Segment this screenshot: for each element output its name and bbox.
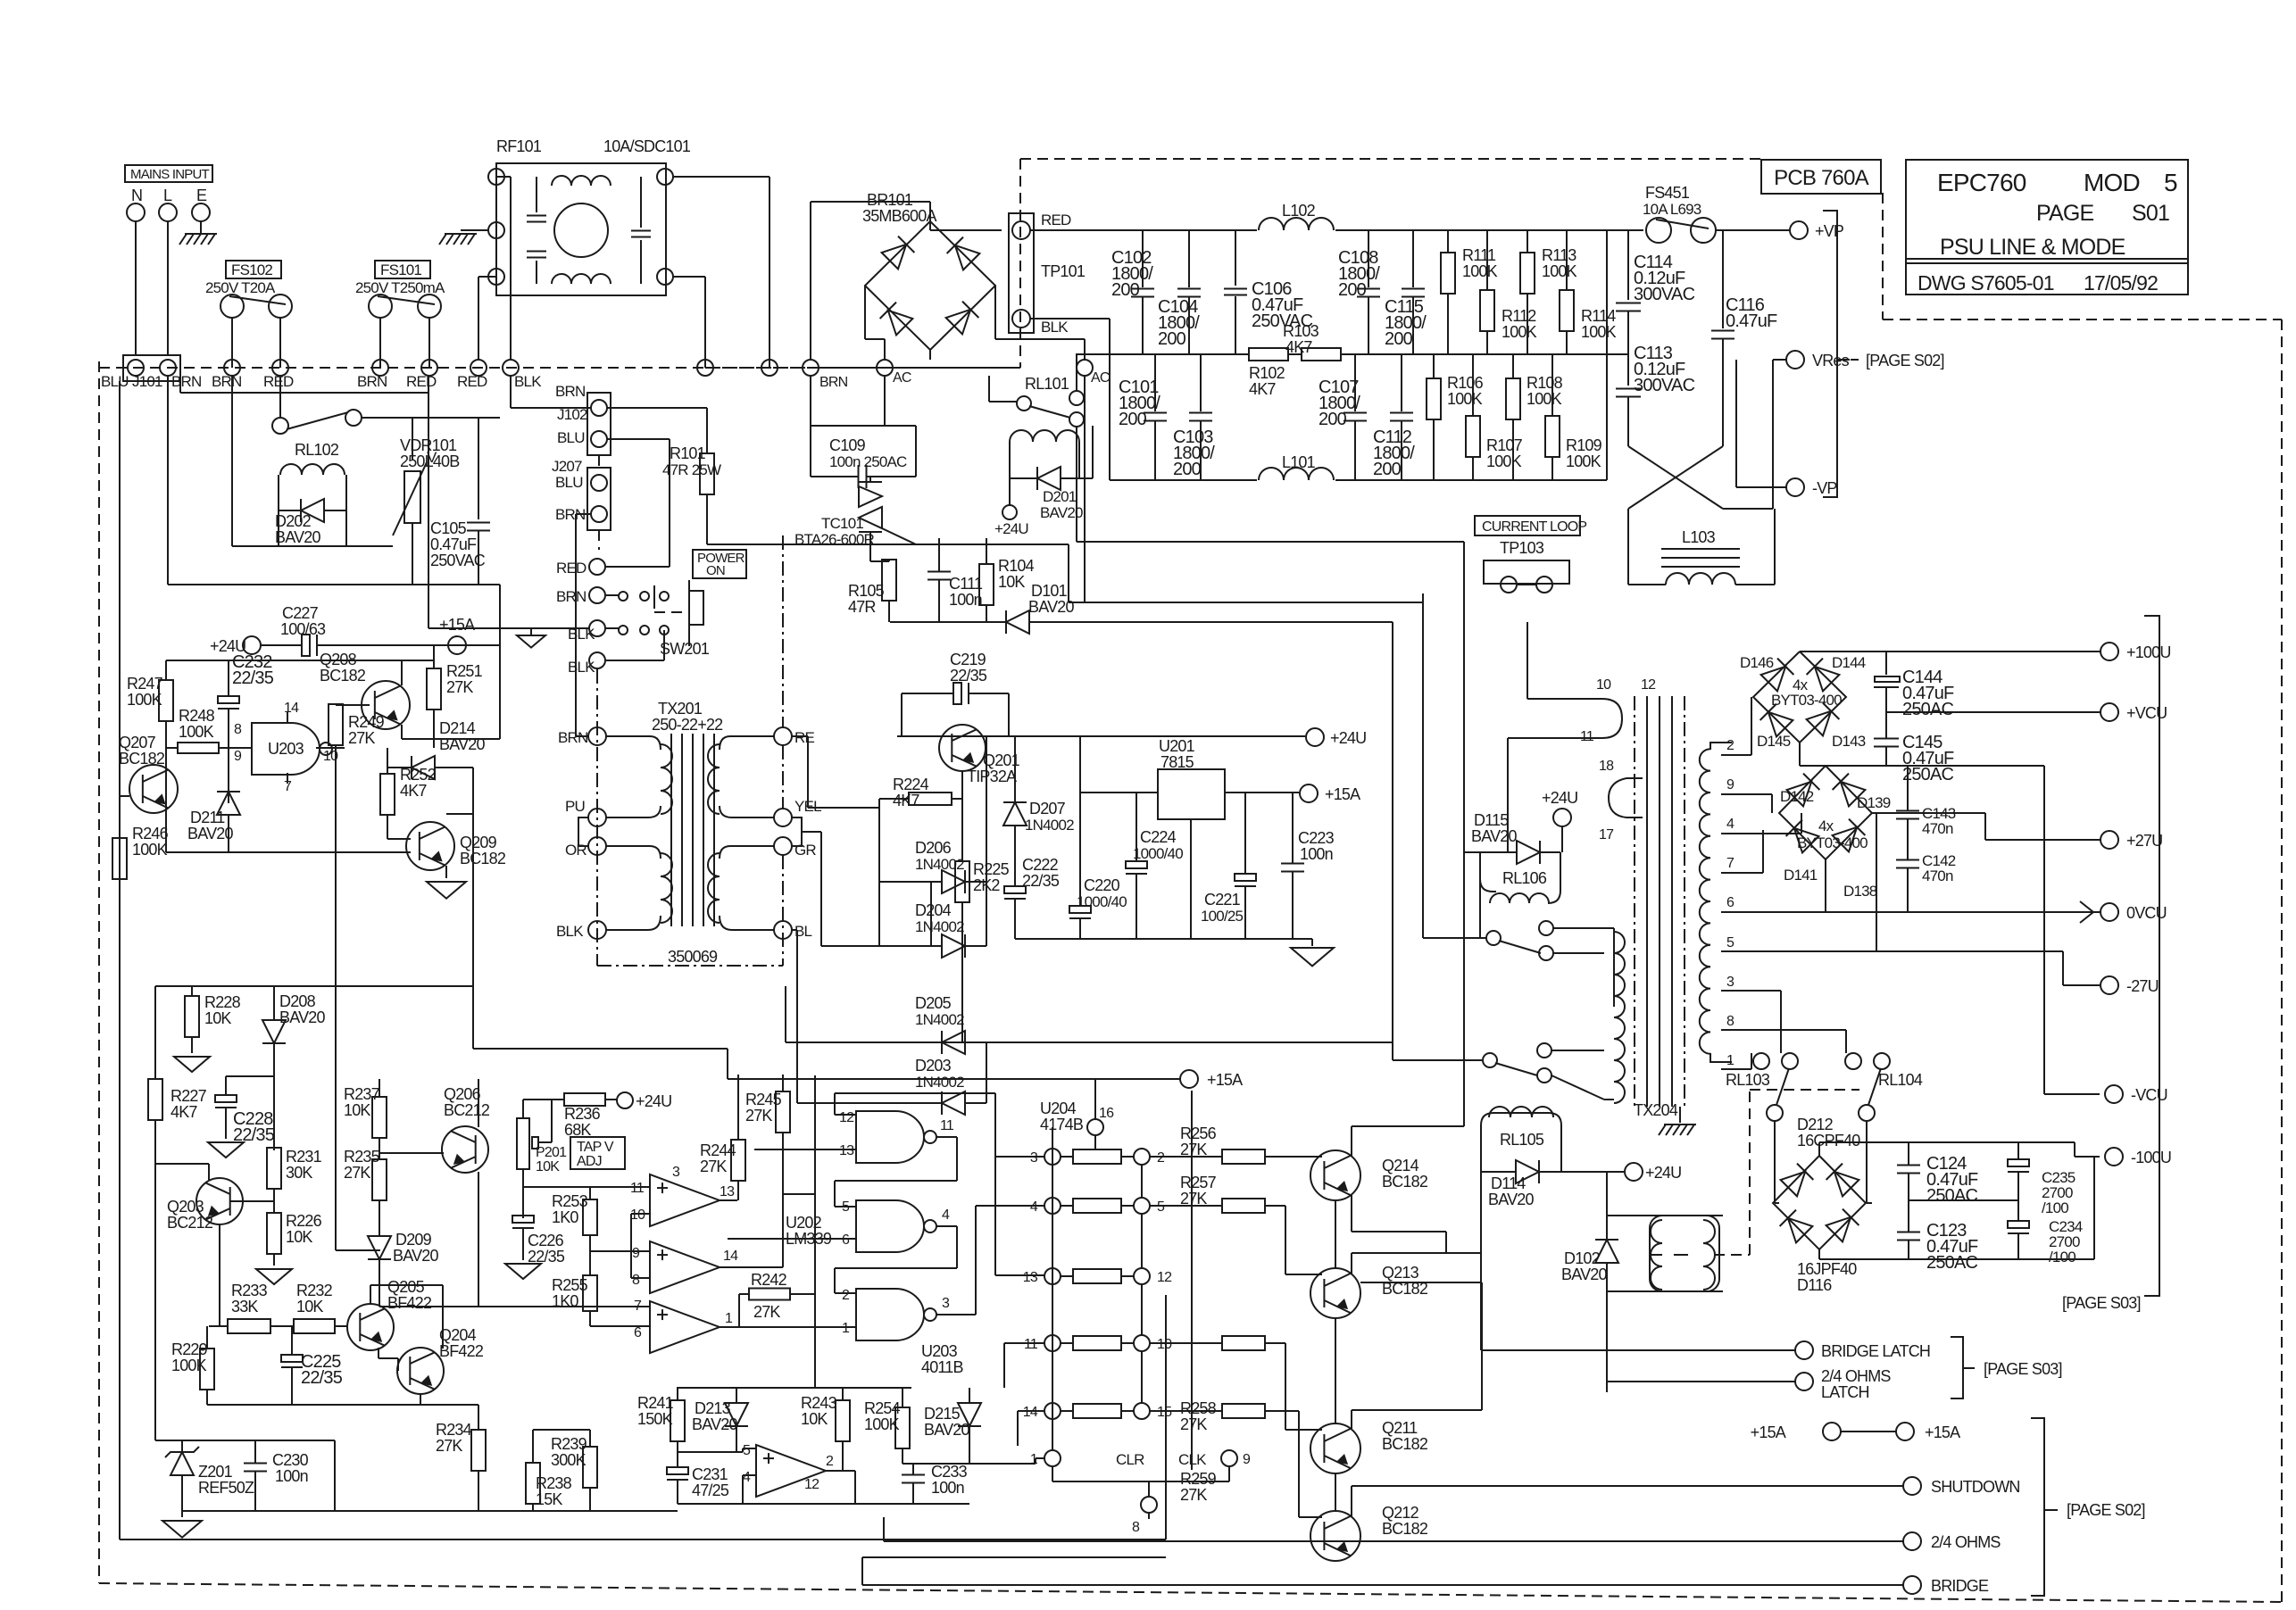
svg-text:R225: R225 — [973, 860, 1010, 878]
svg-text:9: 9 — [234, 749, 242, 764]
wire -100U — [1819, 1142, 2100, 1157]
svg-text:18: 18 — [1599, 759, 1614, 774]
terminal 0VCU — [2101, 903, 2167, 922]
wire nand2 to u204 — [976, 1206, 1044, 1315]
wire relay16 contact — [1486, 921, 1604, 960]
svg-text:R106: R106 — [1447, 374, 1484, 392]
svg-text:1N4002: 1N4002 — [915, 1011, 964, 1028]
resistor R241 — [637, 1388, 685, 1452]
terminal BRIDGE — [862, 1576, 1989, 1595]
wire bridge1 bottom — [1800, 743, 2044, 1035]
svg-text:1: 1 — [1726, 1053, 1734, 1068]
page border bottom — [99, 1583, 2282, 1602]
svg-text:GR: GR — [794, 842, 816, 859]
terminal +15A mid — [1300, 784, 1360, 803]
svg-text:BRN: BRN — [819, 375, 848, 390]
wire gr bl — [791, 930, 986, 1103]
svg-text:100n: 100n — [949, 591, 982, 609]
svg-text:200: 200 — [1119, 410, 1147, 429]
svg-text:14: 14 — [1023, 1405, 1038, 1420]
svg-text:27K: 27K — [1180, 1486, 1207, 1504]
svg-text:200: 200 — [1319, 410, 1347, 429]
diode D205 — [915, 994, 986, 1054]
svg-text:D141: D141 — [1784, 867, 1818, 884]
connector J102 — [555, 383, 611, 455]
wire d214 right — [446, 768, 473, 1049]
svg-text:D115: D115 — [1474, 811, 1509, 829]
svg-text:R246: R246 — [132, 825, 169, 842]
svg-text:5: 5 — [743, 1443, 751, 1458]
TX204 tap 4 — [1726, 817, 1734, 832]
resistor R237 — [344, 1079, 387, 1153]
svg-text:RL106: RL106 — [1502, 869, 1547, 887]
svg-text:27K: 27K — [436, 1437, 462, 1455]
svg-text:12: 12 — [839, 1110, 854, 1125]
RF101 bottom coil — [552, 274, 611, 284]
wire long v1306 — [1165, 1295, 1167, 1539]
svg-text:N: N — [131, 187, 142, 204]
svg-text:TC101: TC101 — [821, 515, 863, 532]
svg-text:100K: 100K — [1566, 452, 1601, 470]
resistor R253 — [552, 1187, 597, 1251]
svg-text:+24U: +24U — [994, 520, 1028, 537]
wire nand feedbacks — [835, 1093, 995, 1293]
relay RL106 — [1480, 852, 1560, 903]
svg-text:[PAGE S02]: [PAGE S02] — [1866, 352, 1944, 369]
svg-text:250AC: 250AC — [1902, 765, 1954, 784]
capacitor C107 — [1319, 354, 1367, 480]
svg-text:RED: RED — [1041, 212, 1071, 228]
svg-text:BLK: BLK — [568, 659, 595, 676]
svg-text:C111: C111 — [949, 575, 983, 593]
svg-text:BF422: BF422 — [387, 1294, 432, 1312]
title text 17/05/92 — [2084, 271, 2158, 295]
svg-text:S01: S01 — [2132, 201, 2169, 226]
svg-text:100K: 100K — [1527, 390, 1562, 408]
TX201 dash bottom — [597, 535, 783, 966]
wire clr link — [913, 1458, 1044, 1464]
svg-text:15: 15 — [1157, 1405, 1172, 1420]
svg-text:U204: U204 — [1040, 1100, 1077, 1117]
terminal SHUTDOWN — [1903, 1477, 2020, 1496]
pot P201 — [517, 1100, 567, 1218]
resistor R225 — [955, 860, 1010, 1042]
svg-text:BAV20: BAV20 — [275, 528, 320, 546]
svg-text:2: 2 — [1726, 738, 1734, 753]
svg-text:Q214: Q214 — [1382, 1157, 1419, 1174]
svg-text:47R 25W: 47R 25W — [662, 461, 721, 478]
svg-text:U203: U203 — [268, 740, 304, 758]
resistor R239 — [551, 1430, 597, 1511]
svg-text:R258: R258 — [1180, 1399, 1217, 1417]
svg-text:100K: 100K — [1486, 452, 1522, 470]
inductor L102 — [1259, 202, 1334, 230]
TX201 pu-or bracket — [578, 817, 589, 846]
RF101 inner wires — [537, 177, 641, 284]
wire FS102 left down — [231, 318, 233, 368]
svg-text:4K7: 4K7 — [893, 792, 919, 809]
svg-text:27K: 27K — [753, 1303, 780, 1321]
svg-text:D102: D102 — [1564, 1249, 1601, 1267]
wire tp101 blk — [1030, 319, 1110, 354]
wire tap8 — [1721, 1030, 1846, 1053]
wire j102 brn — [607, 408, 707, 452]
svg-text:R102: R102 — [1249, 364, 1285, 382]
svg-text:R257: R257 — [1180, 1174, 1217, 1191]
svg-text:470n: 470n — [1922, 867, 1953, 884]
relay RL102 coil — [279, 441, 346, 546]
svg-text:TP101: TP101 — [1041, 262, 1086, 280]
label PAGE S02 vres — [1851, 352, 1944, 369]
wire c227 right down — [499, 585, 501, 645]
svg-text:/100: /100 — [2042, 1199, 2068, 1216]
svg-text:10A L693: 10A L693 — [1643, 201, 1701, 218]
resistor R102 — [1249, 348, 1288, 398]
svg-text:10: 10 — [1596, 677, 1611, 693]
bridge BYT03-400 a — [1740, 651, 1866, 750]
svg-text:27K: 27K — [1180, 1415, 1207, 1433]
fuse FS101 — [369, 295, 441, 318]
transistor Q212 — [1310, 1504, 1428, 1561]
resistor R105 — [848, 560, 896, 622]
wire d115 rail — [1464, 851, 1480, 853]
svg-text:7: 7 — [1726, 856, 1734, 871]
svg-text:250VAC: 250VAC — [430, 552, 486, 569]
connector J101 — [101, 355, 202, 390]
svg-text:RED: RED — [457, 373, 487, 390]
svg-text:250V T20A: 250V T20A — [205, 279, 276, 296]
wire FS101 left down — [379, 318, 381, 368]
svg-text:30K: 30K — [286, 1164, 312, 1182]
svg-text:CLK: CLK — [1178, 1451, 1207, 1468]
wire re rail — [791, 736, 942, 882]
wire RF101 right bottom — [673, 277, 705, 368]
capacitor C112 — [1373, 354, 1415, 480]
svg-text:FS102: FS102 — [231, 261, 272, 278]
wire +24U rail — [897, 735, 1305, 737]
wire L down — [167, 221, 169, 355]
svg-text:10K: 10K — [296, 1298, 323, 1315]
svg-text:R232: R232 — [296, 1282, 333, 1299]
svg-text:10K: 10K — [998, 573, 1025, 591]
svg-text:D201: D201 — [1043, 488, 1077, 505]
svg-text:C233: C233 — [931, 1463, 968, 1481]
resistor R104 — [979, 538, 1035, 622]
svg-text:100n: 100n — [275, 1467, 308, 1485]
svg-text:L103: L103 — [1682, 528, 1716, 546]
svg-text:ON: ON — [706, 563, 725, 578]
svg-text:9: 9 — [1243, 1452, 1251, 1467]
svg-text:100n: 100n — [931, 1479, 964, 1497]
svg-text:3: 3 — [672, 1165, 680, 1180]
resistor R238 — [526, 1455, 572, 1511]
title text DWG S7605-01 — [1917, 271, 2054, 295]
svg-text:8: 8 — [1726, 1014, 1734, 1029]
terminal +15A left — [434, 616, 475, 654]
svg-text:Q207: Q207 — [119, 734, 156, 751]
svg-text:-VP: -VP — [1812, 479, 1837, 497]
transistor Q214 — [1310, 1150, 1428, 1200]
svg-text:R236: R236 — [564, 1105, 601, 1123]
svg-text:35MB600A: 35MB600A — [862, 207, 936, 225]
TX204 tap 5 — [1726, 935, 1734, 950]
terminal E — [192, 187, 210, 221]
terminal L — [159, 187, 177, 221]
capacitor C123 — [1897, 1200, 1978, 1273]
svg-text:PAGE: PAGE — [2036, 201, 2094, 226]
wire bus brn segment — [180, 376, 428, 393]
svg-text:+15A: +15A — [439, 616, 475, 634]
wire crossover — [1628, 446, 1723, 535]
svg-text:BRN: BRN — [212, 373, 242, 390]
svg-text:BC182: BC182 — [1382, 1435, 1428, 1453]
svg-text:5: 5 — [2164, 169, 2177, 196]
svg-text:12: 12 — [1641, 677, 1656, 693]
RF101 cap left bottom — [527, 252, 546, 258]
wire d102 bottom — [1606, 1291, 1608, 1392]
wire bottom rails2 — [862, 1556, 1166, 1558]
svg-text:C219: C219 — [950, 651, 986, 668]
svg-text:RED: RED — [263, 373, 294, 390]
varistor VDR101 — [393, 436, 460, 535]
wire u201 gnd — [1190, 819, 1192, 939]
capacitor C124 — [1897, 1142, 1978, 1206]
diode D102 — [1561, 1216, 1618, 1291]
capacitor C116 — [1711, 230, 1777, 446]
wire d212 top — [1818, 1142, 1820, 1156]
svg-text:12: 12 — [1157, 1270, 1172, 1285]
wire rl101 left — [989, 376, 1017, 402]
RF101 label — [496, 137, 542, 155]
diode D208 — [262, 986, 325, 1150]
svg-text:9: 9 — [1726, 777, 1734, 793]
RF101 toroid circle — [554, 203, 608, 257]
resistor R248 — [166, 707, 252, 753]
wire tap3 — [1721, 991, 1781, 1053]
svg-text:470n: 470n — [1922, 820, 1953, 837]
svg-text:2K2: 2K2 — [973, 876, 1000, 894]
wire vcru — [1886, 711, 2100, 713]
TX201 primary winding 1 — [606, 736, 672, 817]
resistor R246 — [112, 808, 169, 919]
svg-text:OR: OR — [565, 842, 586, 859]
svg-text:4: 4 — [942, 1207, 950, 1223]
diode D202 — [275, 499, 346, 546]
wire p201 wiper — [523, 1186, 650, 1188]
svg-text:PU: PU — [565, 798, 585, 815]
svg-text:BAV20: BAV20 — [924, 1421, 969, 1439]
svg-text:+100U: +100U — [2126, 643, 2171, 661]
capacitor C219 — [902, 651, 1009, 736]
svg-text:CLR: CLR — [1116, 1451, 1144, 1468]
bracket page s02 — [2031, 1418, 2145, 1596]
TX201 left pins — [556, 727, 606, 940]
capacitor C220 — [1069, 736, 1127, 939]
svg-text:C231: C231 — [692, 1465, 728, 1483]
svg-text:D212: D212 — [1797, 1116, 1834, 1133]
wire fuse to +VP — [1716, 229, 1789, 231]
resistor R234 — [436, 1405, 486, 1511]
svg-text:250AC: 250AC — [1926, 1253, 1978, 1273]
wire bridge2 top — [1825, 765, 1826, 767]
bracket page s03 right — [2062, 616, 2159, 1312]
svg-text:Q212: Q212 — [1382, 1504, 1419, 1522]
svg-text:R105: R105 — [848, 582, 885, 600]
transistor Q203 — [167, 1178, 243, 1232]
svg-text:10: 10 — [1157, 1337, 1172, 1352]
svg-text:R231: R231 — [286, 1148, 322, 1166]
svg-text:250AC: 250AC — [1902, 700, 1954, 719]
transistor Q209 — [406, 822, 506, 870]
svg-text:2: 2 — [1157, 1150, 1165, 1166]
node +15A bot — [728, 1070, 1243, 1089]
svg-text:100n: 100n — [1300, 845, 1333, 863]
svg-text:13: 13 — [1023, 1270, 1038, 1285]
diode D214 — [387, 719, 485, 779]
RF101 cap left top — [527, 216, 546, 222]
wire c124 mid — [1909, 1199, 2018, 1201]
svg-text:22/35: 22/35 — [232, 668, 274, 688]
TX204 tap 3 — [1726, 975, 1734, 990]
ground sym sw — [428, 393, 589, 648]
svg-text:14: 14 — [284, 701, 299, 716]
resistor R113 — [1520, 230, 1577, 354]
wire driver dash — [1714, 1090, 1750, 1255]
POWER ON box — [693, 550, 746, 578]
resistor R111 — [1441, 230, 1498, 354]
svg-text:10K: 10K — [536, 1159, 560, 1174]
wire q204 down — [336, 768, 380, 1250]
CURRENT LOOP box — [1475, 516, 1586, 535]
svg-text:150K: 150K — [637, 1410, 673, 1428]
TX204 core — [1635, 696, 1685, 1107]
svg-text:0.47uF: 0.47uF — [430, 535, 477, 553]
svg-text:10K: 10K — [286, 1228, 312, 1246]
connector circles BLK — [568, 620, 605, 676]
fuse FS101 label — [355, 261, 445, 296]
capacitor C234 — [2008, 1200, 2083, 1266]
block top rail — [677, 1075, 911, 1388]
svg-text:BYT03-400: BYT03-400 — [1771, 692, 1842, 709]
svg-text:250V T250mA: 250V T250mA — [355, 279, 445, 296]
svg-text:L: L — [163, 187, 172, 204]
capacitor C232 — [218, 652, 274, 803]
wire u201 in — [1080, 792, 1158, 793]
svg-text:C221: C221 — [1204, 891, 1241, 909]
resistor R256 — [1150, 1125, 1322, 1164]
capacitor C142 — [1896, 852, 1956, 912]
page border top (left of PCB box) — [1020, 158, 1764, 160]
resistor R245 — [745, 1075, 790, 1267]
svg-text:BAV20: BAV20 — [393, 1247, 438, 1265]
svg-text:SHUTDOWN: SHUTDOWN — [1931, 1478, 2020, 1496]
svg-text:47/25: 47/25 — [692, 1481, 729, 1499]
TX204 winding 18-17 — [1599, 759, 1643, 842]
TX204 label — [1634, 1101, 1678, 1119]
svg-text:+24U: +24U — [1542, 789, 1577, 807]
svg-text:3: 3 — [1726, 975, 1734, 990]
TAP V ADJ box — [570, 1137, 625, 1169]
svg-text:TAP V: TAP V — [577, 1140, 614, 1155]
svg-text:Q205: Q205 — [387, 1278, 425, 1296]
diode D209 — [368, 1231, 438, 1307]
svg-text:-VCU: -VCU — [2131, 1086, 2167, 1104]
capacitor C223 — [1281, 793, 1335, 939]
wire q207 — [120, 748, 166, 808]
svg-text:+15A: +15A — [1207, 1071, 1243, 1089]
wire u202 inputs — [379, 1214, 636, 1307]
connector J207 — [552, 458, 611, 530]
svg-text:3: 3 — [1030, 1150, 1038, 1166]
svg-text:BAV20: BAV20 — [1488, 1191, 1534, 1208]
svg-text:300VAC: 300VAC — [1634, 285, 1695, 304]
bridge D212 — [1773, 1116, 1866, 1294]
svg-text:4: 4 — [743, 1470, 751, 1485]
svg-text:10A/SDC101: 10A/SDC101 — [603, 137, 691, 155]
svg-text:100K: 100K — [1502, 323, 1537, 341]
capacitor C106 — [1224, 230, 1313, 354]
svg-text:BC212: BC212 — [167, 1214, 213, 1232]
svg-text:U202: U202 — [786, 1214, 822, 1232]
svg-text:11: 11 — [630, 1181, 645, 1196]
bridge BR101 — [865, 221, 995, 350]
svg-text:J207: J207 — [552, 458, 582, 475]
page border (dash-dot PCB boundary) left — [98, 361, 100, 1583]
svg-text:R107: R107 — [1486, 436, 1523, 454]
svg-text:C226: C226 — [528, 1232, 564, 1249]
svg-text:5: 5 — [1726, 935, 1734, 950]
diode D206 — [915, 839, 986, 893]
capacitor C144 — [1874, 651, 1954, 719]
svg-text:4K7: 4K7 — [400, 782, 427, 800]
wire bus to BR101 — [705, 367, 835, 369]
capacitor C228 — [215, 1076, 275, 1145]
switch SW201 — [619, 580, 710, 658]
capacitor C225 — [281, 1326, 343, 1405]
wire tx204 10 up — [1527, 622, 1528, 699]
wire z201 right — [335, 1440, 500, 1511]
wire q208 emit — [402, 645, 500, 739]
wire tap9 — [1721, 794, 1772, 813]
terminal -VCU — [2105, 1085, 2167, 1104]
TX204 tap 9 — [1726, 777, 1734, 793]
resistor R258 — [1150, 1336, 1322, 1433]
transistor Q204 — [397, 1326, 484, 1394]
terminal +24U left — [210, 636, 261, 655]
wire j207 brn to tx201 — [576, 514, 591, 736]
svg-text:BAV20: BAV20 — [1028, 598, 1074, 616]
svg-text:U203: U203 — [921, 1342, 958, 1360]
svg-text:MAINS INPUT: MAINS INPUT — [130, 167, 210, 182]
svg-text:BAV20: BAV20 — [279, 1008, 325, 1026]
svg-text:1N4002: 1N4002 — [915, 856, 964, 873]
TX204 tap 2 — [1726, 738, 1734, 753]
svg-text:27K: 27K — [700, 1158, 727, 1175]
wire rl105 left — [1481, 1172, 1796, 1350]
svg-text:5: 5 — [1157, 1199, 1165, 1215]
RF101 terminals — [488, 169, 673, 285]
svg-text:3: 3 — [942, 1296, 950, 1311]
node RED3 on bus — [457, 360, 487, 390]
wire -27U — [1876, 951, 2100, 985]
diode D201 — [1010, 467, 1093, 521]
svg-text:CURRENT LOOP: CURRENT LOOP — [1482, 519, 1586, 535]
inductor L103 — [1628, 509, 1775, 585]
svg-text:EPC760: EPC760 — [1937, 169, 2026, 196]
TX201 number 350069 — [668, 948, 718, 966]
svg-text:11: 11 — [1580, 729, 1594, 744]
wire tap1 — [1721, 1053, 1751, 1069]
